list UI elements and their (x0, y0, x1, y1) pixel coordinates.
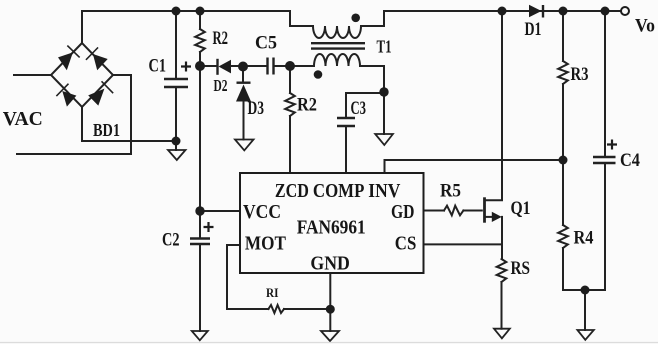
svg-text:CS: CS (395, 233, 417, 255)
svg-text:Vo: Vo (635, 16, 655, 37)
svg-text:T1: T1 (377, 37, 392, 57)
svg-text:INV: INV (368, 180, 400, 202)
svg-text:RS: RS (511, 258, 531, 279)
svg-text:D2: D2 (214, 76, 228, 95)
svg-text:FAN6961: FAN6961 (297, 217, 366, 239)
svg-text:GND: GND (310, 253, 350, 275)
svg-text:R3: R3 (571, 64, 589, 85)
svg-text:C4: C4 (620, 150, 640, 171)
svg-text:D1: D1 (525, 19, 542, 40)
svg-text:VCC: VCC (243, 201, 281, 223)
svg-text:RI: RI (266, 285, 279, 300)
svg-text:C3: C3 (351, 98, 367, 119)
svg-text:C5: C5 (255, 33, 277, 54)
svg-text:C1: C1 (149, 56, 167, 77)
svg-text:C2: C2 (162, 230, 180, 251)
svg-text:MOT: MOT (245, 233, 287, 255)
svg-text:R5: R5 (440, 181, 461, 202)
svg-text:R4: R4 (574, 228, 594, 249)
svg-text:ZCD: ZCD (275, 180, 309, 202)
svg-text:R2: R2 (213, 28, 229, 49)
svg-text:Q1: Q1 (511, 198, 531, 219)
svg-text:COMP: COMP (313, 180, 365, 202)
svg-text:VAC: VAC (3, 108, 43, 130)
svg-text:BD1: BD1 (93, 120, 120, 140)
svg-text:GD: GD (391, 201, 415, 223)
svg-text:R2: R2 (297, 95, 317, 116)
svg-text:D3: D3 (248, 98, 265, 119)
